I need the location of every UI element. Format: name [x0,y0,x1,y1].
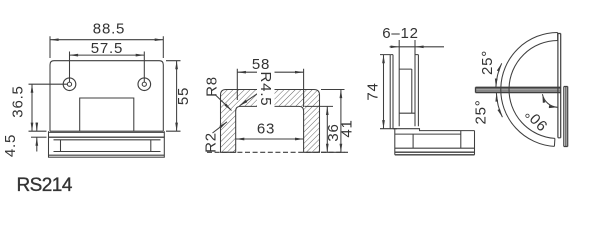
swing fan inner arc [509,41,558,139]
dim 4.5 extension line bottom [31,136,47,138]
svg-text:57.5: 57.5 [91,40,123,57]
front view base band (4.5 thick) [49,131,165,137]
dim 63 line [236,138,304,140]
swing fan outer arc [501,33,558,147]
svg-text:6–12: 6–12 [382,25,419,42]
dim arc 25 upper [496,63,502,87]
svg-text:88.5: 88.5 [93,21,125,38]
front view plate outline [50,61,163,132]
svg-text:R2: R2 [203,132,220,153]
label R4.5 background [257,71,275,114]
dim 57.5 extension lines [70,52,145,83]
swing view glass bar [476,87,561,92]
svg-text:90°: 90° [521,104,551,134]
svg-text:58: 58 [252,56,270,73]
front view clamp body [49,137,165,157]
dim 6-12 arrows [390,46,400,48]
svg-text:55: 55 [175,87,192,105]
svg-text:R8: R8 [204,76,221,97]
dim 4.5 outside arrows [36,123,38,132]
leader R8 [215,95,232,111]
dim 55 extension lines [166,61,181,132]
dim 6-12 extension lines [399,40,415,47]
dim 41 line [340,90,342,153]
dim text 90 background [522,105,551,134]
dim arc 90 [542,94,557,107]
dim 88.5 extension lines [50,36,163,58]
svg-text:41: 41 [339,119,356,137]
side view clamp jaws [399,47,418,127]
section dashed base line [207,151,348,153]
svg-text:63: 63 [257,121,275,138]
swing view wall plate [558,34,561,138]
side view horizontal leg right cap [474,131,476,155]
dim 36.5 extension lines [29,84,68,131]
left screw hole [63,78,76,91]
svg-text:RS214: RS214 [17,175,73,196]
dim 57.5 line [70,54,145,56]
leader R4.5 [240,91,263,106]
side view glass slot inner lines [399,69,415,113]
dim arc 25 lower [496,93,502,117]
leader R2 [213,122,228,133]
clamp body inner lines [49,140,165,155]
section view hatched body [221,90,320,153]
dim 36 line [326,106,328,152]
svg-text:74: 74 [365,82,382,100]
dim 88.5 line [50,39,163,41]
swing fan end caps [554,33,557,147]
svg-text:R4.5: R4.5 [257,72,274,107]
svg-text:25°: 25° [479,50,496,75]
side view wall plate outer layer [390,55,393,129]
svg-text:36.5: 36.5 [10,85,27,117]
dim 58 extension lines [237,69,303,107]
swing view wall lines [564,87,568,147]
dim 36 extension line [305,105,334,107]
dim 74 extension lines [380,55,397,129]
dim 58 line [237,71,303,73]
side view horizontal leg bottom edges [395,152,475,155]
side view horizontal leg top edge with step [393,129,475,131]
front view plate bottom edge [50,130,163,132]
dim 41 extension lines [321,90,345,153]
dim 55 line [176,61,178,132]
dim 36.5 line [31,84,33,131]
side view horizontal leg left cap [394,129,396,155]
right screw hole [138,78,151,91]
svg-text:4.5: 4.5 [2,134,19,157]
dim 74 line [383,55,385,129]
svg-text:25°: 25° [473,99,490,124]
side view horizontal leg inner lines [395,131,475,149]
front view center notch [80,98,134,131]
